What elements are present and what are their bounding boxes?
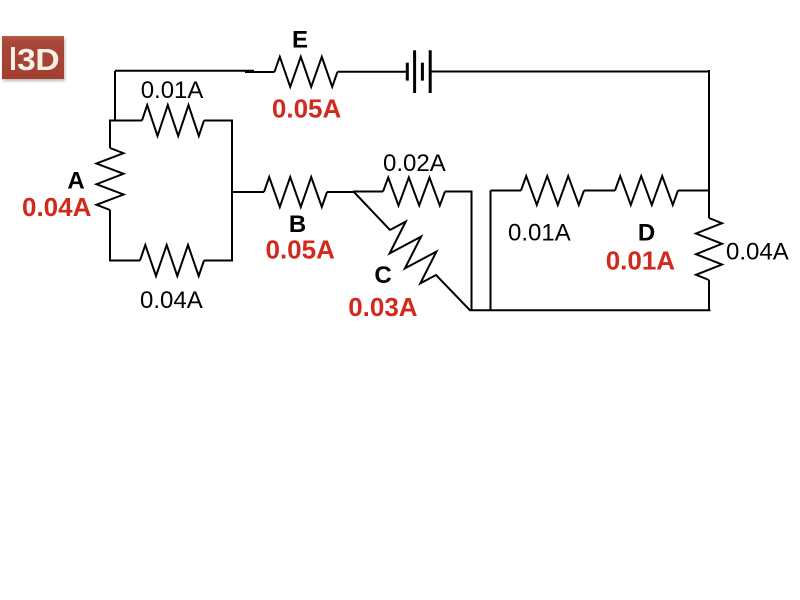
wire right edge lower lead	[708, 280, 710, 311]
svg-text:C: C	[374, 262, 391, 289]
svg-text:0.01A: 0.01A	[508, 220, 571, 247]
wire bottom	[470, 309, 711, 311]
wire C to bottom corner	[436, 275, 470, 311]
wire box bottom-left lead	[110, 260, 140, 262]
wire battery to right corner	[431, 71, 709, 73]
wire node to 0.02A	[353, 191, 383, 193]
svg-text:0.02A: 0.02A	[383, 150, 446, 177]
svg-text:E: E	[292, 27, 308, 54]
svg-text:0.05A: 0.05A	[266, 235, 336, 265]
resistor 0.01A (left of D pair)	[521, 176, 584, 205]
wire box top-right lead	[204, 120, 233, 122]
wire 0.02A drop	[471, 192, 473, 311]
wire D to right edge	[678, 190, 710, 192]
resistor C	[390, 222, 437, 284]
svg-text:A: A	[67, 168, 84, 195]
wire top horizontal step segment	[245, 71, 275, 73]
svg-text:0.04A: 0.04A	[140, 287, 203, 314]
resistor E	[275, 57, 338, 87]
svg-text:0.03A: 0.03A	[348, 292, 418, 322]
resistor B	[264, 177, 327, 207]
resistor A	[97, 148, 124, 210]
wire box left upper lead	[109, 120, 111, 149]
svg-text:0.04A: 0.04A	[726, 238, 789, 265]
wire right side upper	[708, 70, 710, 191]
resistor 0.04A (right)	[696, 218, 722, 280]
wire top-left horizontal	[115, 70, 254, 72]
svg-text:D: D	[638, 220, 655, 247]
wire right edge upper lead	[708, 191, 710, 219]
wire B to node	[327, 191, 354, 193]
resistor 0.04A (box bottom)	[140, 245, 204, 276]
resistor 0.02A	[383, 178, 445, 206]
wire 0.02A lead right	[445, 191, 473, 193]
wire between D pair	[584, 190, 615, 192]
wire left drop to parallel box	[114, 71, 116, 122]
svg-text:0.01A: 0.01A	[141, 77, 204, 104]
resistor 0.01A (box top)	[142, 105, 204, 136]
resistor D	[615, 176, 678, 205]
wire box top-left lead	[110, 120, 142, 122]
wire box right edge	[231, 121, 233, 261]
wire box bottom-right lead	[204, 260, 233, 262]
wire D-loop top-left lead	[491, 190, 522, 192]
wire E to battery	[338, 71, 408, 73]
wire box to B	[232, 191, 264, 193]
wire box left lower lead	[109, 210, 111, 262]
wire node to C	[353, 191, 390, 230]
svg-text:0.05A: 0.05A	[272, 94, 342, 124]
badge 13D	[2, 36, 64, 79]
svg-text:0.01A: 0.01A	[606, 246, 676, 276]
wire D-loop left edge	[490, 191, 492, 311]
svg-text:0.04A: 0.04A	[22, 192, 92, 222]
battery BT1	[407, 50, 430, 93]
